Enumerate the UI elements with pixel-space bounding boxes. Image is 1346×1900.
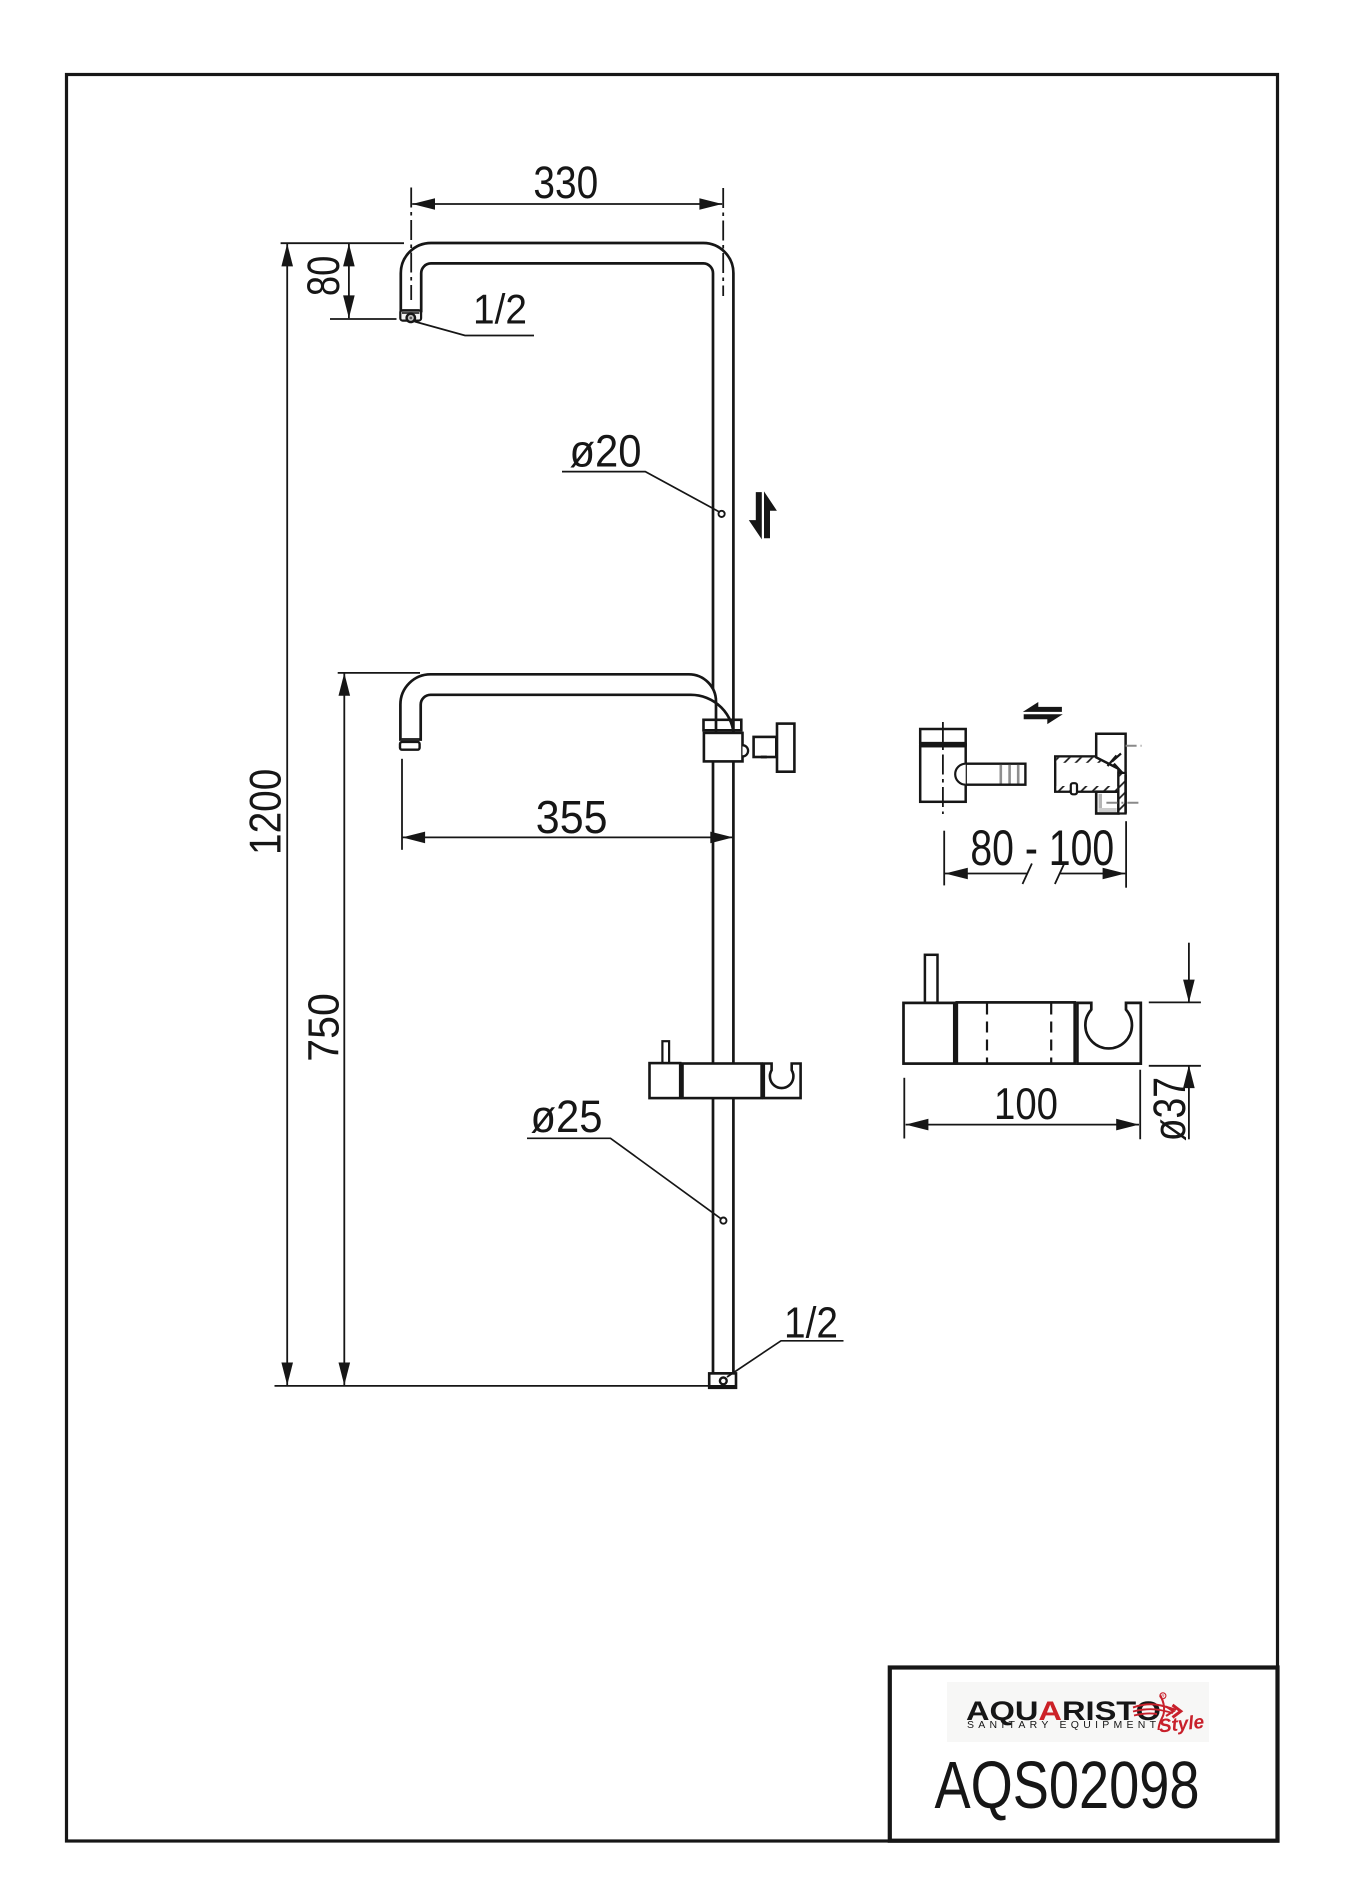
svg-text:1/2: 1/2: [784, 1298, 838, 1347]
svg-text:R: R: [1161, 1694, 1164, 1699]
svg-text:ø20: ø20: [570, 426, 642, 477]
svg-text:ø37: ø37: [1144, 1077, 1195, 1141]
svg-text:330: 330: [533, 157, 598, 208]
svg-text:355: 355: [536, 791, 608, 843]
svg-text:750: 750: [300, 993, 349, 1062]
svg-text:SANITARY EQUIPMENT: SANITARY EQUIPMENT: [967, 1719, 1160, 1731]
svg-text:1/2: 1/2: [473, 285, 527, 332]
svg-text:80: 80: [298, 256, 349, 296]
svg-text:80 - 100: 80 - 100: [970, 820, 1114, 876]
svg-text:AQS02098: AQS02098: [935, 1748, 1200, 1823]
svg-text:100: 100: [994, 1080, 1058, 1129]
svg-text:ø25: ø25: [531, 1091, 603, 1142]
svg-text:1200: 1200: [242, 769, 291, 855]
